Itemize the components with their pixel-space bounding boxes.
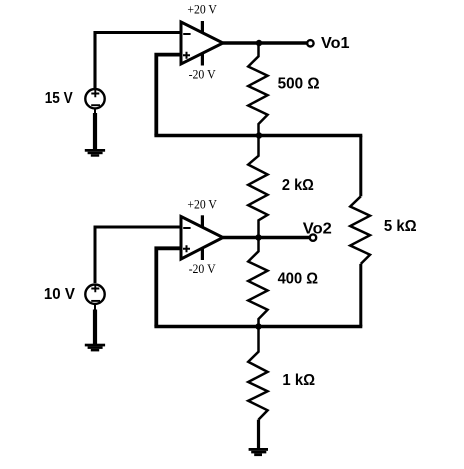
wire: bus A right corner down to R5 top: [359, 136, 362, 197]
ground at V1: [85, 149, 105, 157]
wire: bus A horizontal: [154, 134, 362, 137]
svg-text:2 kΩ: 2 kΩ: [282, 177, 314, 194]
svg-text:-20 V: -20 V: [189, 261, 217, 276]
U1 negative supply pin: [201, 54, 204, 66]
wire: U2 output to Vo2 terminal: [223, 236, 310, 239]
svg-text:+20 V: +20 V: [187, 196, 217, 211]
resistor R1 500 ohm: [248, 43, 267, 136]
terminal Vo1: [307, 40, 313, 46]
wire: U1 output to Vo1 terminal: [223, 41, 307, 44]
resistor R2 2 kohm: [248, 136, 267, 238]
voltage source V2 10 V: [85, 285, 104, 304]
wire: U2 feedback, + input left and down to bus B: [156, 248, 181, 326]
svg-text:5 kΩ: 5 kΩ: [384, 218, 417, 235]
wire: V1 bottom stem to ground: [94, 108, 96, 113]
U1 positive supply pin: [201, 21, 204, 33]
svg-text:500 Ω: 500 Ω: [278, 76, 320, 93]
svg-text:1 kΩ: 1 kΩ: [282, 372, 315, 389]
op-amp U1: [181, 22, 223, 64]
resistor R3 400 ohm: [248, 238, 267, 327]
node: junction bus A / resistor column: [256, 132, 262, 138]
wire: V1 top up and right to U1 inverting input: [95, 33, 181, 89]
wire: V2 bottom stem to ground: [94, 304, 96, 310]
U2 positive supply pin: [201, 215, 204, 227]
svg-text:Vo1: Vo1: [321, 35, 350, 52]
svg-text:-20 V: -20 V: [189, 66, 217, 81]
node: junction bus B / resistor column: [255, 323, 261, 329]
wire: bus B horizontal: [154, 325, 362, 328]
wire: U1 feedback, + input left and down to bus A: [156, 55, 181, 136]
ground at V2: [85, 344, 105, 352]
svg-text:15 V: 15 V: [45, 90, 74, 107]
node: junction at U1 output / R1 top: [256, 40, 262, 46]
terminal Vo2: [310, 234, 316, 240]
voltage source V1 15 V: [85, 89, 104, 108]
wire: V2 top up and right to U2 inverting input: [95, 227, 181, 283]
wire: R4 bottom lead to ground: [257, 420, 260, 448]
resistor R5 5 kohm: [350, 196, 370, 264]
svg-text:Vo2: Vo2: [303, 221, 332, 238]
wire: R5 bottom down to bus B: [359, 264, 362, 327]
svg-text:+20 V: +20 V: [187, 2, 217, 17]
resistor R4 1 kohm: [248, 327, 267, 420]
op-amp U2: [181, 217, 223, 260]
svg-text:400 Ω: 400 Ω: [278, 271, 318, 288]
ground at R4 bottom: [249, 448, 268, 456]
U2 negative supply pin: [201, 248, 204, 260]
svg-text:10 V: 10 V: [44, 286, 76, 303]
node: junction at U2 output / R3 top: [255, 234, 261, 240]
